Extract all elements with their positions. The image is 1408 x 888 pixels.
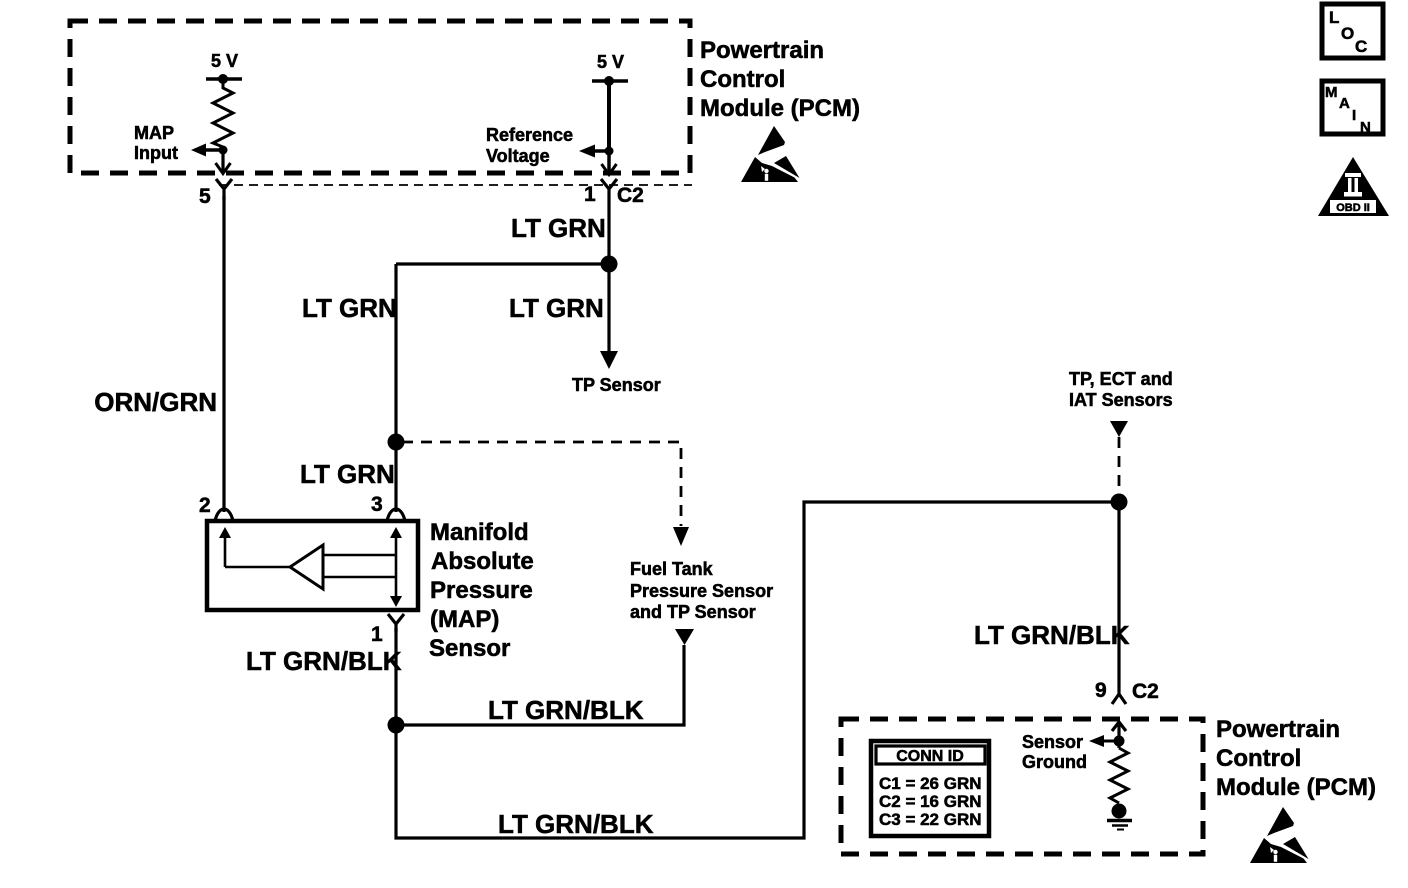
svg-text:5 V: 5 V: [211, 51, 238, 71]
arrow down from fuel tank label: [675, 629, 694, 645]
svg-text:C2: C2: [617, 184, 644, 207]
wire from fuel tank label to LT GRN/BLK run: [396, 645, 684, 725]
MAP sensor pin 2 terminal arc: [215, 509, 233, 521]
svg-text:1: 1: [584, 183, 596, 206]
MAIN reference box: [1322, 81, 1383, 134]
MAP sensor box U1: [207, 521, 418, 610]
internal arrow up to pin 2: [224, 537, 227, 567]
ground symbol: [1112, 804, 1127, 819]
svg-text:5: 5: [199, 185, 211, 208]
node 5V right supply bar: [592, 79, 628, 83]
svg-text:LT GRN: LT GRN: [300, 459, 395, 489]
svg-text:LT GRN/BLK: LT GRN/BLK: [246, 646, 402, 676]
pin 5 connector terminal: [216, 179, 232, 200]
svg-text:CONN ID: CONN ID: [896, 748, 964, 765]
svg-text:TP, ECT and: TP, ECT and: [1069, 369, 1173, 389]
resistor R2 (sensor ground): [1110, 748, 1128, 803]
svg-text:Pressure: Pressure: [430, 577, 533, 604]
svg-text:3: 3: [371, 493, 383, 516]
internal output wire: [225, 566, 290, 569]
svg-text:C2 = 16 GRN: C2 = 16 GRN: [879, 792, 982, 811]
internal supply wire vertical with arrows: [395, 537, 398, 597]
wire ORN/GRN pin 5 to MAP sensor pin 2: [222, 196, 225, 512]
PCM module box bottom (dashed outline): [841, 719, 1203, 854]
svg-text:1: 1: [371, 623, 383, 646]
svg-text:Powertrain: Powertrain: [1216, 716, 1340, 743]
svg-text:9: 9: [1095, 679, 1107, 702]
pin 1 connector terminal: [601, 179, 617, 200]
wire down to pin 5 with arrow: [221, 150, 224, 173]
wire LT GRN/BLK to pin 9: [1117, 502, 1120, 684]
dashed wire from sensors to junction: [1118, 437, 1121, 502]
arrow MAP input (left): [206, 148, 223, 152]
junction node sensor ground bus: [1111, 494, 1128, 511]
svg-text:Control: Control: [700, 66, 785, 93]
connector C2 face (thin dashed line): [219, 184, 692, 186]
OBD II triangle badge: [1318, 157, 1389, 216]
svg-text:M: M: [1325, 84, 1338, 101]
svg-text:LT GRN/BLK: LT GRN/BLK: [498, 809, 654, 839]
esd warning symbol bottom: [1250, 807, 1309, 863]
wire LT GRN/BLK long run to PCM: [396, 502, 1119, 838]
internal amplifier triangle: [290, 545, 323, 589]
pin 9 connector terminal: [1112, 684, 1126, 704]
svg-text:Module (PCM): Module (PCM): [1216, 774, 1376, 801]
svg-text:ORN/GRN: ORN/GRN: [94, 387, 217, 417]
svg-text:Voltage: Voltage: [486, 146, 550, 166]
esd warning symbol top: [741, 126, 800, 182]
wire down to pin 1 with arrow: [607, 151, 611, 174]
LOC reference box: [1322, 4, 1383, 58]
arrow reference voltage (left): [595, 149, 609, 153]
svg-text:Pressure Sensor: Pressure Sensor: [630, 581, 773, 601]
svg-text:Module (PCM): Module (PCM): [700, 95, 860, 122]
node 5V left supply bar: [206, 77, 242, 81]
wire LT GRN down to MAP pin 3: [394, 264, 397, 512]
sensor ground entry arrow up: [1112, 722, 1126, 731]
svg-text:LT GRN/BLK: LT GRN/BLK: [974, 620, 1130, 650]
svg-text:Input: Input: [134, 143, 178, 163]
arrow to TP sensor: [600, 351, 618, 369]
svg-text:2: 2: [199, 494, 211, 517]
internal input wire upper: [323, 554, 396, 557]
svg-text:A: A: [1339, 95, 1350, 112]
svg-text:C3 = 22 GRN: C3 = 22 GRN: [879, 810, 982, 829]
svg-text:C1 = 26 GRN: C1 = 26 GRN: [879, 774, 982, 793]
node reference voltage junction: [605, 147, 614, 156]
svg-text:O: O: [1341, 24, 1354, 43]
svg-text:C: C: [1355, 37, 1367, 56]
svg-text:Sensor: Sensor: [429, 635, 510, 662]
PCM module box top (dashed outline): [70, 21, 690, 173]
dashed wire to fuel tank pressure sensor: [402, 442, 681, 526]
svg-text:5 V: 5 V: [597, 52, 624, 72]
node MAP input junction: [219, 146, 228, 155]
CONN ID table box: [871, 741, 989, 836]
svg-text:Sensor: Sensor: [1022, 732, 1083, 752]
junction node LT GRN branch: [388, 434, 405, 451]
svg-text:(MAP): (MAP): [430, 606, 499, 633]
svg-text:OBD II: OBD II: [1336, 202, 1370, 214]
svg-text:Absolute: Absolute: [431, 548, 534, 575]
internal input wire lower: [323, 576, 396, 579]
svg-text:Fuel Tank: Fuel Tank: [630, 559, 714, 579]
svg-text:N: N: [1360, 119, 1371, 136]
svg-text:MAP: MAP: [134, 123, 174, 143]
svg-text:L: L: [1329, 8, 1339, 27]
arrow down dashed wire end: [673, 527, 689, 546]
MAP sensor pin 1 terminal: [388, 614, 404, 632]
svg-text:Powertrain: Powertrain: [700, 37, 824, 64]
svg-text:Ground: Ground: [1022, 752, 1087, 772]
wire LT GRN pin 1 down: [607, 200, 610, 352]
wire reference voltage: [607, 81, 611, 151]
svg-text:Reference: Reference: [486, 125, 573, 145]
junction node LT GRN: [601, 256, 618, 273]
arrow down from sensors label: [1110, 421, 1128, 437]
svg-text:C2: C2: [1132, 680, 1159, 703]
svg-text:LT GRN: LT GRN: [302, 293, 397, 323]
wire LT GRN branch horizontal: [396, 262, 609, 265]
svg-text:TP Sensor: TP Sensor: [572, 375, 661, 395]
arrow sensor ground (left): [1104, 740, 1119, 743]
svg-text:LT GRN/BLK: LT GRN/BLK: [488, 695, 644, 725]
svg-text:I: I: [1352, 107, 1356, 124]
MAP sensor pin 3 terminal arc: [387, 509, 405, 521]
svg-text:Manifold: Manifold: [430, 519, 529, 546]
resistor R1 (MAP pull-up): [213, 79, 233, 147]
svg-text:Control: Control: [1216, 745, 1301, 772]
svg-text:IAT Sensors: IAT Sensors: [1069, 390, 1173, 410]
junction node LT GRN/BLK: [388, 717, 405, 734]
svg-text:LT GRN: LT GRN: [511, 213, 606, 243]
node sensor ground junction: [1114, 736, 1125, 747]
svg-text:and TP Sensor: and TP Sensor: [630, 602, 756, 622]
CONN ID header box: [876, 746, 985, 764]
svg-text:LT GRN: LT GRN: [509, 293, 604, 323]
